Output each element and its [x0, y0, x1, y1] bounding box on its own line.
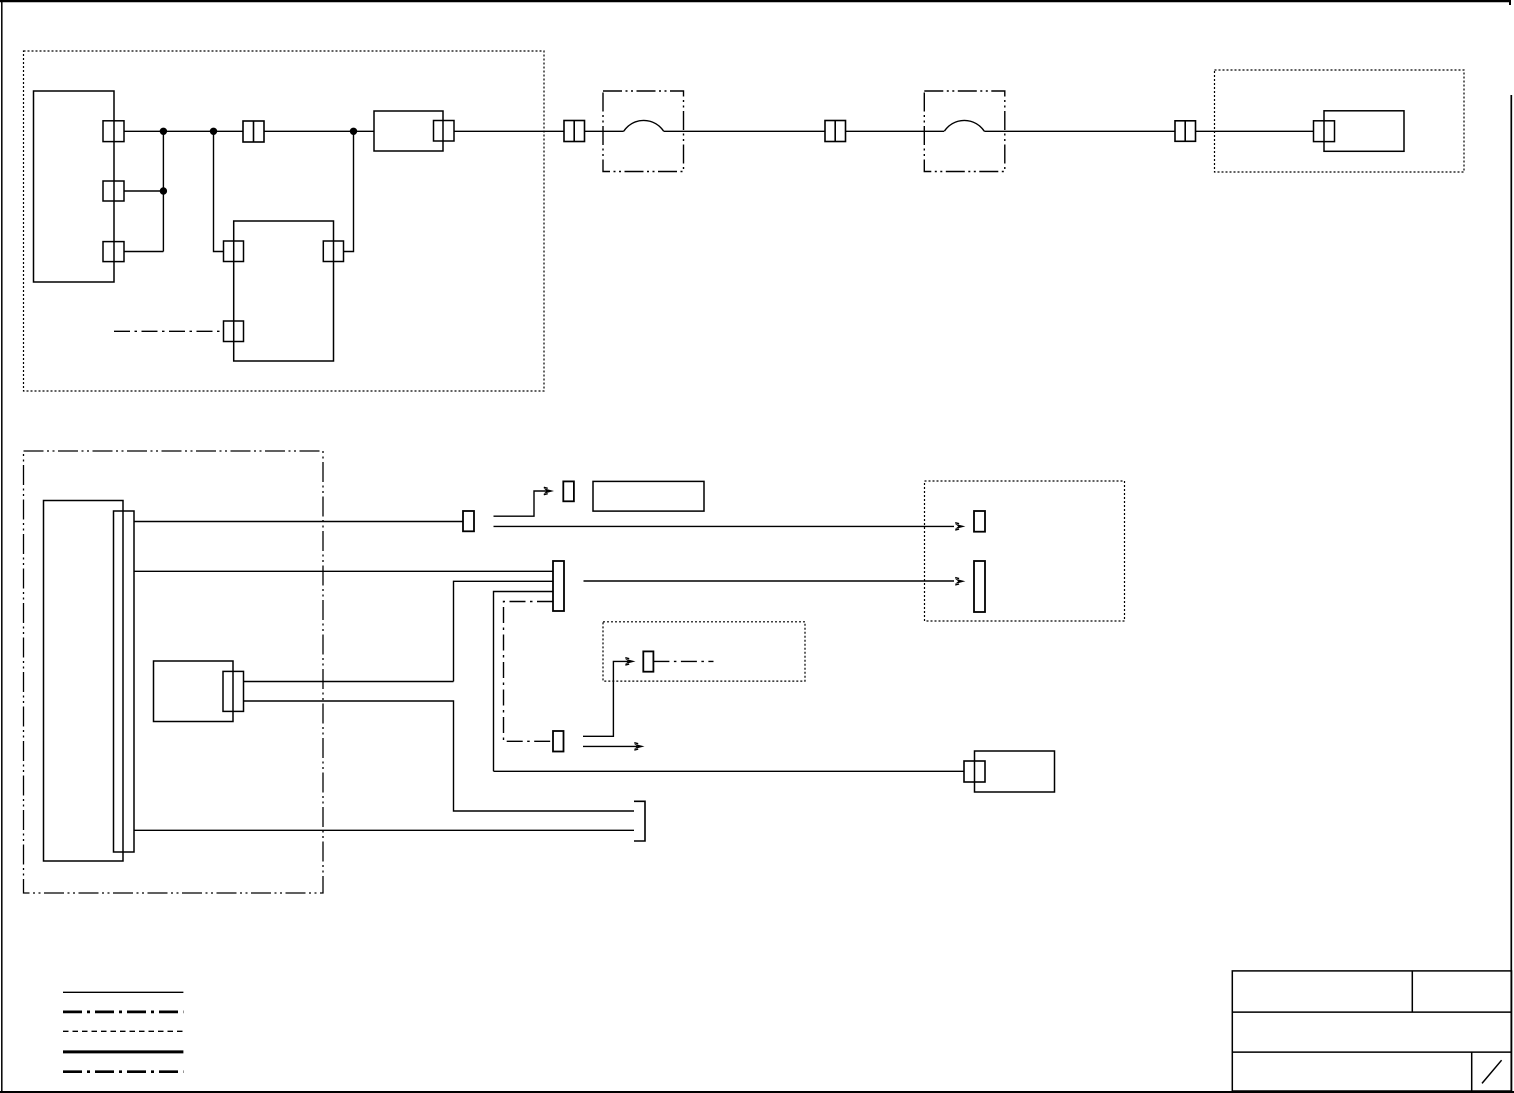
wire CP2 to grommet G1 [585, 130, 624, 132]
wire G1 to CP3 [664, 130, 825, 132]
component F (control unit) [44, 501, 124, 862]
connector L (multi) [553, 561, 564, 611]
legend line 2 (dash-dot heavy) [63, 1011, 183, 1014]
legend line 4 (solid heavy) [63, 1050, 183, 1053]
wire vertical S4 drop to D2 [344, 131, 354, 251]
component D (relay box) [234, 221, 334, 361]
node splice S3 [160, 188, 166, 194]
wire CP3 to grommet G2 [846, 130, 945, 132]
wire W1b long [494, 525, 955, 527]
wire CP4 to C1 [1196, 130, 1314, 132]
connector N (tall) [223, 671, 244, 711]
page border top-right tick [1509, 0, 1511, 5]
legend line 3 (dashed) [63, 1030, 183, 1032]
wire W1a to I [494, 491, 548, 516]
connector A pin 3 [103, 242, 124, 262]
wire W1 strip to H [134, 521, 463, 523]
phantom box assembly (middle left, dash-dot-dot) [24, 451, 324, 893]
connector pair CP1 divider [253, 121, 255, 142]
title block row divider 1 [1232, 1011, 1511, 1013]
connector pair CP2 divider [573, 121, 575, 142]
connector pair CP3 [825, 121, 846, 142]
wire W5 L out long [584, 580, 955, 582]
wire CP1 to B [264, 130, 374, 132]
component C (load) [1324, 111, 1404, 152]
component P (actuator) [975, 751, 1055, 792]
connector C1 [1314, 121, 1335, 142]
connector I [563, 481, 574, 501]
arrow W1a [544, 487, 555, 494]
connector pair CP4 divider [1184, 121, 1186, 142]
wire W2 strip to L [134, 570, 553, 572]
connector H [463, 511, 474, 531]
connector O [964, 761, 985, 782]
connector Q [553, 731, 564, 752]
grommet G1 bump [624, 120, 664, 131]
connector strip G [114, 511, 135, 852]
bracket terminator [634, 801, 645, 841]
connector B1 [434, 121, 455, 142]
label box J [593, 481, 704, 511]
title block row divider 2 [1232, 1051, 1511, 1053]
arrow W1b [955, 523, 966, 530]
wire W7 strip bottom to bracket [134, 829, 634, 831]
shield dash-dot lead to D3 [114, 330, 224, 332]
shield dash-dot from R [653, 660, 713, 662]
node splice S4 [351, 128, 357, 134]
grommet G2 bump [944, 120, 984, 131]
title block column divider row1 [1411, 971, 1413, 1012]
page border left [1, 0, 3, 1092]
page border bottom [0, 1091, 1514, 1093]
connector D1 [224, 241, 244, 262]
component M (sensor) [154, 661, 234, 722]
connector pair CP4 [1175, 121, 1196, 142]
connector pair CP2 [564, 121, 585, 142]
wire M lower to bracket [244, 701, 635, 811]
wire vertical S1 drop [162, 131, 164, 251]
wire B1 to CP2 [454, 130, 564, 132]
node splice S1 [160, 128, 166, 134]
title block diagonal slash [1482, 1060, 1502, 1083]
dashed harness box (top left) [24, 51, 545, 391]
arrow Q-R [625, 658, 636, 665]
dashed receiver box (right) [925, 481, 1125, 621]
wire vertical S2 drop to D1 [214, 131, 224, 251]
page border top [0, 0, 1511, 2]
legend line 1 (solid thin) [63, 991, 183, 993]
connector pair CP3 divider [834, 121, 836, 142]
wire A2 branch [124, 190, 163, 192]
wire A1 to splice [124, 130, 243, 132]
legend line 5 (dash-dot heavy) [63, 1070, 183, 1073]
connector D2 [323, 241, 343, 262]
component B (fuse box) [374, 111, 443, 151]
title block column divider row3 [1471, 1052, 1473, 1091]
wire Q arrow out [583, 745, 637, 747]
connector A pin 1 [103, 121, 124, 142]
shield dash-dot loop from L to Q [504, 602, 554, 742]
connector pair CP1 [243, 121, 264, 142]
wire W4 down-branch from L [494, 592, 554, 772]
wire Q to R [583, 661, 628, 736]
wire A3 branch [124, 251, 163, 253]
wire W3 up-branch into L [454, 581, 554, 681]
component A (junction block) [34, 91, 115, 282]
connector K2 (tall) [974, 561, 985, 612]
title block outer [1232, 971, 1511, 1091]
connector D3 [224, 321, 244, 342]
wire M upper [244, 681, 454, 683]
connector A pin 2 [103, 181, 124, 201]
connector R [643, 651, 653, 671]
dashed box around R [603, 622, 805, 681]
node splice S2 [211, 128, 217, 134]
grommet box G1 (dash-dot) [603, 91, 684, 172]
connector K1 [974, 511, 985, 532]
page border right [1510, 95, 1512, 1091]
grommet box G2 (dash-dot) [924, 91, 1005, 172]
wire G2 to CP4 [984, 130, 1175, 132]
arrow W5 [955, 578, 966, 585]
dashed harness box (top right) [1215, 70, 1465, 172]
arrow Q out [634, 743, 645, 750]
wire W6 long to O [494, 770, 965, 772]
